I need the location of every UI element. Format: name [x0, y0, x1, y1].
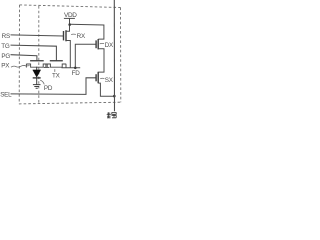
ground symbol: [33, 85, 41, 89]
dashed pixel-boundary box: right edge: [120, 8, 122, 103]
wire: FD riser and DX gate wire: [75, 44, 96, 68]
transistor Q SX: gate bar: [95, 74, 97, 81]
VDD terminal bar: [64, 17, 75, 19]
gate PX: channel surface line with well dip: [26, 64, 47, 67]
wire: FD diffusion wire: [62, 67, 81, 69]
photodiode PD: triangle: [33, 70, 41, 77]
background: [0, 0, 126, 120]
dashed pixel-boundary box: left edge: [18, 5, 20, 104]
svg-text:PX: PX: [1, 63, 10, 70]
dashed pixel-boundary box: top edge: [20, 5, 121, 8]
svg-text:RS: RS: [2, 33, 10, 40]
transistor Q DX: channel bar: [97, 39, 99, 49]
wire: DX source to SX drain: [98, 49, 104, 72]
wire: RS line: [11, 35, 64, 36]
svg-text:FD: FD: [72, 70, 81, 77]
wire: PG line to PX gate stem: [11, 55, 37, 61]
node: VDD junction dot: [68, 23, 71, 26]
wire: TG line to TX gate stem: [11, 45, 57, 60]
wire: VDD rail to DX drain: [70, 24, 104, 39]
transistor Q RX: gate bar: [63, 31, 65, 40]
node: output junction dot: [113, 95, 116, 98]
photodiode PD: stem: [36, 67, 38, 70]
svg-text:PD: PD: [44, 85, 53, 92]
photodiode PD: cathode bar: [33, 77, 41, 79]
svg-text:VDD: VDD: [64, 12, 77, 19]
wire: SX source to output column: [98, 83, 114, 96]
gate TX: channel surface line with well dip: [46, 64, 66, 67]
label RX with leader: [71, 33, 76, 35]
wire: PD to ground: [36, 78, 38, 84]
svg-text:TG: TG: [1, 43, 10, 50]
svg-text:PG: PG: [1, 53, 10, 60]
wire: VDD stem down to RX drain: [66, 18, 69, 31]
node: FD junction dot: [74, 67, 77, 70]
label SX with leader: [100, 77, 104, 80]
leader for PX (wavy): [11, 65, 30, 67]
label TX with pointer tick: [54, 69, 56, 72]
inner dashed divider line: [38, 6, 40, 103]
label PD with curved leader: [40, 80, 44, 84]
gate PX: source/drain end ticks: [26, 64, 47, 68]
label DX with leader: [100, 42, 104, 45]
gate PX: top plate: [30, 60, 44, 61]
gate TX: top plate: [50, 60, 63, 61]
dashed pixel-boundary box: bottom edge: [19, 102, 121, 104]
transistor Q DX: gate bar: [95, 40, 97, 48]
wire: RX source lead down to FD wire: [66, 41, 70, 68]
transistor Q SX: channel bar: [97, 72, 99, 84]
transistor Q RX: channel bar: [65, 30, 67, 41]
svg-text:SX: SX: [105, 77, 114, 84]
svg-text:RX: RX: [77, 33, 86, 40]
svg-text:DX: DX: [105, 42, 114, 49]
label output (CJK glyph blocks at bottom right): [107, 112, 117, 118]
wire: SEL line to SX gate: [11, 78, 96, 95]
wire: output column vertical: [113, 0, 115, 111]
wire: PX-TX shared diffusion: [44, 66, 50, 68]
svg-text:TX: TX: [52, 72, 61, 79]
svg-text:SEL: SEL: [0, 91, 12, 98]
gate TX: source/drain end ticks: [46, 64, 66, 68]
